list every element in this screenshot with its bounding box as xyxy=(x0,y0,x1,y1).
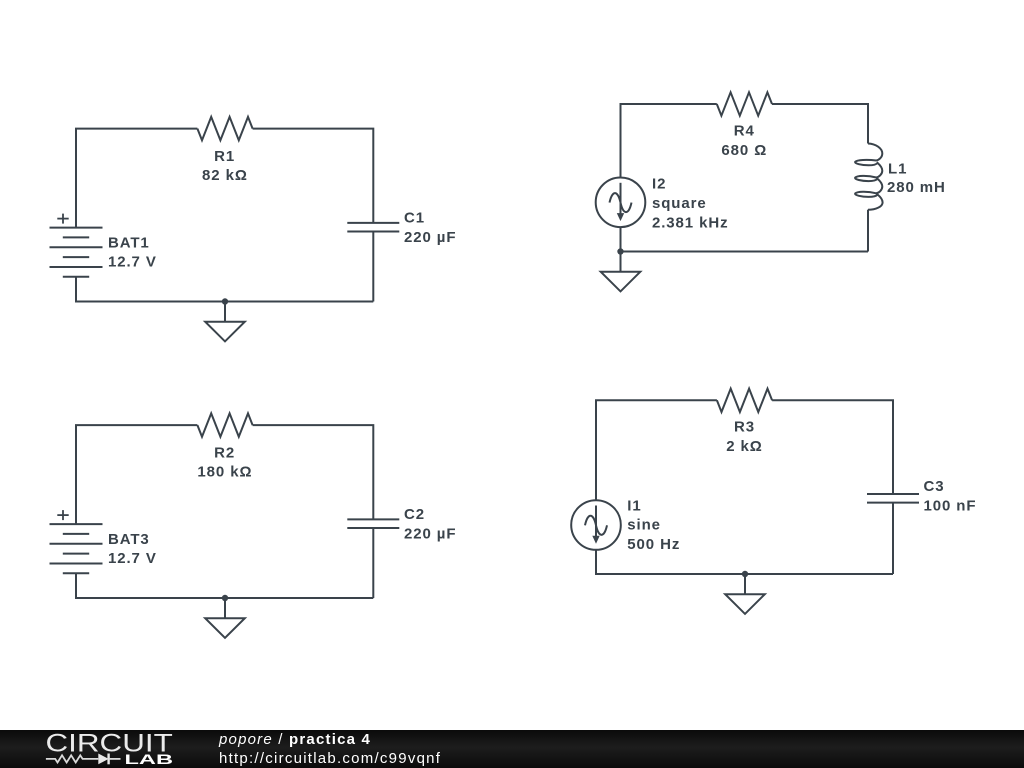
svg-text:I1: I1 xyxy=(627,498,641,515)
inductor L1 xyxy=(855,144,883,210)
svg-text:C3: C3 xyxy=(924,478,945,495)
battery BAT1 plus sign xyxy=(57,214,68,224)
wire bottom of circuit 1 (battery negative to C1 bottom) xyxy=(76,277,373,302)
svg-text:12.7 V: 12.7 V xyxy=(108,550,157,567)
current source I2 xyxy=(596,178,646,228)
svg-text:square: square xyxy=(652,195,707,212)
svg-text:LAB: LAB xyxy=(125,752,174,767)
resistor R3 xyxy=(717,389,772,412)
wire bottom of circuit 3 xyxy=(76,573,373,598)
wire R1 to C1 (top-right + right vertical) xyxy=(253,129,374,223)
capacitor C3 xyxy=(867,494,919,503)
svg-text:C2: C2 xyxy=(404,506,425,523)
wire R2 to C2 xyxy=(253,425,374,519)
node junction dot circuit 2 xyxy=(617,248,623,254)
svg-text:82 kΩ: 82 kΩ xyxy=(202,167,248,184)
svg-text:2.381 kHz: 2.381 kHz xyxy=(652,215,728,232)
node junction dot circuit 1 xyxy=(222,298,228,304)
ground circuit 2 xyxy=(601,252,641,292)
svg-text:100 nF: 100 nF xyxy=(924,498,977,515)
svg-text:R3: R3 xyxy=(734,419,755,436)
svg-text:I2: I2 xyxy=(652,176,666,193)
svg-text:R1: R1 xyxy=(214,148,235,165)
wire bottom of circuit 4 xyxy=(596,550,893,574)
footer bar xyxy=(0,730,1024,768)
svg-text:sine: sine xyxy=(627,517,661,534)
battery BAT3 plus sign xyxy=(57,510,68,520)
wire R4 to L1 (top-right + right vertical) xyxy=(772,104,868,144)
ground circuit 3 xyxy=(205,598,245,638)
ground circuit 1 xyxy=(205,302,245,342)
svg-text:2 kΩ: 2 kΩ xyxy=(726,438,762,455)
node junction dot circuit 4 xyxy=(742,571,748,577)
svg-text:R4: R4 xyxy=(734,123,755,140)
wire I2 to R4 (left vertical + top-left) xyxy=(621,104,717,178)
logo resistor zigzag xyxy=(46,755,98,762)
logo diode xyxy=(98,754,120,765)
resistor R1 xyxy=(197,117,252,140)
svg-text:BAT1: BAT1 xyxy=(108,234,150,251)
node junction dot circuit 3 xyxy=(222,595,228,601)
wire below C1 xyxy=(372,232,374,302)
svg-text:http://circuitlab.com/c99vqnf: http://circuitlab.com/c99vqnf xyxy=(219,750,441,767)
svg-text:500 Hz: 500 Hz xyxy=(627,536,680,553)
wire battery BAT1 positive to R1 (left vertical + top-left) xyxy=(76,129,197,228)
svg-text:BAT3: BAT3 xyxy=(108,531,150,548)
wire below C3 xyxy=(892,503,894,574)
svg-text:L1: L1 xyxy=(888,160,907,177)
svg-text:popore / practica 4: popore / practica 4 xyxy=(218,731,371,748)
current source I1 xyxy=(571,500,621,550)
resistor R2 xyxy=(197,413,252,436)
wire below C2 xyxy=(372,528,374,598)
capacitor C1 xyxy=(347,223,399,232)
capacitor C2 xyxy=(347,519,399,528)
wire below L1 xyxy=(867,210,869,252)
svg-text:C1: C1 xyxy=(404,210,425,227)
svg-text:280 mH: 280 mH xyxy=(887,179,946,196)
svg-text:680 Ω: 680 Ω xyxy=(721,142,767,159)
wire bottom of circuit 2 xyxy=(621,227,869,251)
battery BAT1 xyxy=(50,228,103,277)
svg-text:R2: R2 xyxy=(214,445,235,462)
svg-text:220 µF: 220 µF xyxy=(404,229,456,246)
svg-text:12.7 V: 12.7 V xyxy=(108,254,157,271)
wire R3 to C3 xyxy=(772,400,893,494)
resistor R4 xyxy=(717,92,772,115)
wire I1 to R3 (left vertical + top-left) xyxy=(596,400,717,500)
svg-text:220 µF: 220 µF xyxy=(404,526,456,543)
battery BAT3 xyxy=(50,524,103,573)
ground circuit 4 xyxy=(725,574,765,614)
svg-text:180 kΩ: 180 kΩ xyxy=(197,464,252,481)
wire battery BAT3 positive to R2 xyxy=(76,425,197,524)
